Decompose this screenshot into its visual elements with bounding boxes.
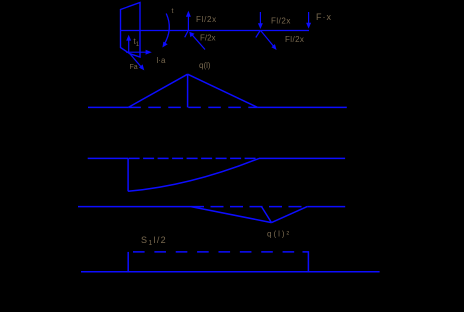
plot2 parabola xyxy=(128,158,259,191)
plot2 drop vertical xyxy=(127,158,129,191)
velocity arrow v2 (diagonal below beam from node C) xyxy=(261,31,277,51)
svg-text:q(l): q(l) xyxy=(199,61,211,70)
svg-text:Fl/2x: Fl/2x xyxy=(271,17,291,26)
x-axis arrow (right, at support) xyxy=(126,50,152,55)
label Fx (right of F3) xyxy=(316,12,332,22)
plot3 axis solid right xyxy=(307,206,345,208)
label F/2x (below beam at node B) xyxy=(200,34,216,43)
force arrow Fa (diagonal from support origin) xyxy=(130,54,145,71)
svg-text:q(l)²: q(l)² xyxy=(267,230,291,239)
plot3 steep line xyxy=(262,207,272,223)
svg-text:t: t xyxy=(172,8,174,15)
velocity arrow v1 (diagonal below beam, head at node B) xyxy=(189,32,205,50)
plot4 right corner piece xyxy=(303,252,309,272)
force arrow F3 (down, at beam end x=309) xyxy=(306,12,311,29)
beam xyxy=(121,30,310,32)
label Fl/2x (below beam right of node C) xyxy=(285,35,304,44)
plot2 axis dashed middle xyxy=(129,157,259,159)
force arrow F2 (down, at x=260) xyxy=(258,12,263,29)
label t (above arc) xyxy=(172,8,174,15)
moment arc M1 xyxy=(162,14,169,48)
svg-text:F·x: F·x xyxy=(316,12,332,22)
plot1 peak vertical xyxy=(187,74,189,107)
plot1 triangle falling edge xyxy=(188,74,258,107)
svg-text:Fl/2x: Fl/2x xyxy=(196,15,217,24)
force arrow F1 (up, at x=188) xyxy=(186,11,191,31)
plot4 base line xyxy=(81,271,380,273)
plot4 left vertical xyxy=(127,252,129,272)
label Fa xyxy=(130,64,138,71)
svg-text:l·a: l·a xyxy=(157,56,166,65)
plot3 shallow descending line xyxy=(191,207,272,223)
tick at node C xyxy=(256,31,260,38)
plot3 rising line xyxy=(272,207,308,223)
plot3 axis solid left xyxy=(78,206,191,208)
label l-a (right of x-axis arrow) xyxy=(157,56,166,65)
plot1 triangle rising edge xyxy=(128,74,187,107)
label q(l)2 (below plot3 low point) xyxy=(267,230,291,239)
plot4 dashed top xyxy=(133,251,294,253)
label Fl/2x (between F2 and F3) xyxy=(271,17,291,26)
svg-text:Fa: Fa xyxy=(130,64,138,71)
label q(l) at plot1 peak xyxy=(199,61,211,70)
label Sl/2 (above plot4) xyxy=(141,235,167,247)
support trapezoid xyxy=(121,3,141,58)
plot2 axis solid left xyxy=(88,157,128,159)
plot2 axis solid right xyxy=(259,157,345,159)
plot1 axis dashed middle xyxy=(128,106,257,108)
label Fl/2x (right of F1) xyxy=(196,15,217,24)
reaction arrow R1 (up, at support) xyxy=(126,35,131,54)
svg-text:t1: t1 xyxy=(134,37,140,48)
svg-text:S1l/2: S1l/2 xyxy=(141,235,167,247)
plot1 axis solid left xyxy=(88,106,128,108)
plot1 axis solid right xyxy=(258,106,347,108)
label t1 xyxy=(134,37,140,48)
svg-text:Fl/2x: Fl/2x xyxy=(285,35,304,44)
tick at node B xyxy=(185,31,188,37)
svg-text:F/2x: F/2x xyxy=(200,34,216,43)
plot3 axis dashed middle xyxy=(191,206,307,208)
